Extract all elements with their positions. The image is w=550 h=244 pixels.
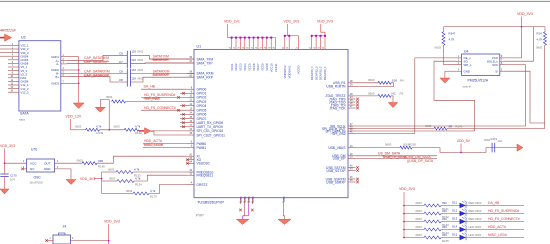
- svg-text:DA_HB: DA_HB: [488, 201, 500, 205]
- svg-text:DCAP33_4: DCAP33_4: [310, 66, 314, 80]
- svg-text:80: 80: [273, 47, 275, 49]
- svg-text:4.7k: 4.7k: [134, 168, 140, 172]
- svg-text:330: 330: [442, 209, 447, 213]
- svg-text:SCK: SCK: [492, 63, 498, 67]
- svg-text:VCC8: VCC8: [261, 63, 265, 71]
- svg-text:HDD_ACT#: HDD_ACT#: [488, 225, 506, 229]
- svg-text:4.7K: 4.7K: [537, 38, 543, 42]
- svg-text:0603: 0603: [126, 189, 133, 193]
- svg-text:R14: R14: [537, 32, 543, 36]
- svg-text:B+: B+: [56, 75, 60, 79]
- svg-text:75: 75: [251, 47, 253, 49]
- svg-text:VCC6: VCC6: [252, 63, 256, 71]
- svg-text:4.7k: 4.7k: [150, 189, 156, 193]
- svg-text:VCC4: VCC4: [243, 63, 247, 71]
- svg-text:VDD_5V: VDD_5V: [457, 139, 471, 143]
- svg-text:OSC: OSC: [34, 176, 42, 180]
- svg-text:LED 0603: LED 0603: [469, 225, 482, 229]
- svg-text:CAP_SATATX/P: CAP_SATATX/P: [84, 60, 109, 64]
- svg-text:0603: 0603: [416, 225, 423, 229]
- svg-text:JTAG_TCK: JTAG_TCK: [329, 106, 346, 110]
- svg-text:MISC_LED#: MISC_LED#: [144, 143, 163, 147]
- svg-text:4.7k: 4.7k: [135, 124, 141, 128]
- svg-text:R165: R165: [442, 239, 449, 243]
- svg-text:HD_FS_CONNECT#: HD_FS_CONNECT#: [488, 217, 520, 221]
- svg-text:0603: 0603: [416, 233, 423, 237]
- svg-text:0603: 0603: [108, 167, 115, 171]
- svg-text:U2: U2: [21, 36, 26, 40]
- svg-text:0603: 0603: [416, 209, 423, 213]
- svg-text:GND: GND: [44, 167, 52, 171]
- svg-text:((USB_DP_SATA: ((USB_DP_SATA: [407, 159, 434, 163]
- svg-text:SATA_TXP: SATA_TXP: [197, 61, 213, 65]
- svg-text:NC: NC: [392, 91, 396, 95]
- svg-text:sata: sata: [19, 118, 25, 122]
- svg-text:GND3: GND3: [51, 82, 59, 86]
- svg-text:103: 103: [132, 76, 137, 80]
- svg-text:SPI_CS2T_GPIO11: SPI_CS2T_GPIO11: [197, 133, 226, 137]
- svg-text:0603: 0603: [385, 142, 392, 146]
- svg-text:0402: 0402: [138, 50, 144, 54]
- svg-text:J4: J4: [63, 225, 67, 229]
- svg-text:U4: U4: [464, 50, 468, 54]
- svg-text:0603: 0603: [435, 46, 442, 50]
- svg-text:SPI_CS0: SPI_CS0: [332, 132, 345, 136]
- svg-text:VDD_12V: VDD_12V: [65, 115, 81, 119]
- svg-text:D14: D14: [452, 224, 458, 228]
- svg-text:R149: R149: [97, 131, 104, 135]
- svg-text:0603: 0603: [416, 201, 423, 205]
- svg-text:PM25LV512A: PM25LV512A: [468, 79, 489, 83]
- svg-text:4.7K: 4.7K: [449, 38, 455, 42]
- svg-text:52: 52: [313, 47, 315, 49]
- svg-text:SATA: SATA: [20, 112, 29, 116]
- svg-text:104: 104: [498, 139, 503, 143]
- svg-text:D15: D15: [452, 232, 458, 236]
- svg-text:VCC9: VCC9: [265, 63, 269, 71]
- svg-text:R146: R146: [456, 125, 463, 129]
- svg-text:R147: R147: [449, 32, 456, 36]
- svg-text:VCC3: VCC3: [239, 63, 243, 71]
- svg-text:R148: R148: [98, 165, 105, 169]
- svg-text:VDD_3V3: VDD_3V3: [517, 12, 533, 16]
- svg-text:HD_FS_SUSPEND#: HD_FS_SUSPEND#: [488, 209, 519, 213]
- svg-text:21: 21: [282, 47, 284, 49]
- svg-text:72: 72: [237, 47, 239, 49]
- svg-text:VCC11: VCC11: [274, 63, 278, 72]
- svg-text:PVP: PVP: [196, 213, 204, 218]
- svg-text:0603: 0603: [114, 125, 121, 129]
- svg-text:0603: 0603: [106, 95, 113, 99]
- svg-text:330: 330: [442, 225, 447, 229]
- svg-text:DA_HB: DA_HB: [144, 85, 156, 89]
- svg-text:0603: 0603: [536, 46, 543, 50]
- svg-text:R5: R5: [400, 91, 404, 95]
- svg-text:U70: U70: [31, 148, 37, 152]
- svg-text:TRF_PWR: TRF_PWR: [144, 97, 161, 101]
- svg-text:53: 53: [318, 47, 320, 49]
- svg-text:0603: 0603: [425, 124, 432, 128]
- svg-text:DCAP33_1: DCAP33_1: [323, 66, 327, 80]
- svg-text:VCC5: VCC5: [247, 63, 251, 71]
- svg-text:10K: 10K: [392, 78, 397, 82]
- svg-text:soic-8: soic-8: [463, 85, 471, 89]
- svg-text:78: 78: [264, 47, 266, 49]
- svg-text:4.7k: 4.7k: [135, 177, 141, 181]
- svg-text:RED 0603: RED 0603: [469, 201, 482, 205]
- svg-text:U1: U1: [197, 45, 202, 49]
- svg-text:USB_DP: USB_DP: [333, 157, 346, 161]
- svg-text:A-: A-: [56, 62, 59, 66]
- svg-text:CAP_SATARX/P: CAP_SATARX/P: [84, 73, 110, 77]
- svg-text:SI: SI: [495, 69, 498, 73]
- svg-text:90.9R150: 90.9R150: [404, 142, 417, 146]
- svg-text:DCAP33_2: DCAP33_2: [319, 66, 323, 80]
- svg-text:0603: 0603: [109, 176, 116, 180]
- svg-text:0603: 0603: [416, 217, 423, 221]
- svg-text:51: 51: [309, 47, 311, 49]
- svg-text:D11: D11: [452, 200, 457, 204]
- svg-text:VCCIO: VCCIO: [297, 66, 301, 75]
- svg-text:103: 103: [132, 58, 137, 62]
- svg-text:DCAP33_3: DCAP33_3: [314, 66, 318, 80]
- svg-text:C7: C7: [119, 60, 123, 64]
- svg-text:VDD_3V3: VDD_3V3: [0, 144, 15, 148]
- svg-text:4.7k: 4.7k: [96, 125, 102, 129]
- svg-text:0R: 0R: [449, 125, 453, 129]
- svg-text:C171: C171: [491, 137, 498, 141]
- svg-text:R170: R170: [150, 195, 157, 199]
- svg-text:104: 104: [10, 178, 15, 182]
- svg-text:V12_3: V12_3: [21, 90, 30, 94]
- svg-text:0603: 0603: [77, 159, 84, 163]
- svg-text:HD_FS_CONNECT#: HD_FS_CONNECT#: [144, 106, 176, 110]
- svg-text:21: 21: [286, 47, 288, 49]
- svg-text:C8: C8: [119, 78, 123, 82]
- svg-text:GRSTZ: GRSTZ: [197, 183, 208, 187]
- svg-text:VDD_3V3: VDD_3V3: [284, 20, 300, 24]
- svg-text:PWM1: PWM1: [197, 146, 207, 150]
- svg-text:R154: R154: [135, 182, 142, 186]
- svg-text:D12: D12: [452, 208, 458, 212]
- svg-text:VDD_3V3: VDD_3V3: [104, 220, 120, 224]
- svg-text:C8: C8: [119, 52, 123, 56]
- svg-text:RED 0603: RED 0603: [469, 217, 482, 221]
- svg-text:VCC: VCC: [30, 162, 37, 166]
- svg-text:USB_SSRXP: USB_SSRXP: [326, 180, 345, 184]
- svg-text:Smd7050: Smd7050: [30, 181, 43, 185]
- svg-text:76: 76: [255, 47, 257, 49]
- svg-text:VDD_3V3: VDD_3V3: [80, 177, 95, 181]
- svg-text:GPIO4: GPIO4: [197, 104, 207, 108]
- svg-text:C8: C8: [119, 70, 123, 74]
- svg-text:OUT: OUT: [44, 162, 51, 166]
- svg-text:USB_R1RTN: USB_R1RTN: [326, 85, 346, 89]
- svg-text:VSSOSC: VSSOSC: [197, 162, 211, 166]
- svg-text:GND: GND: [464, 69, 470, 73]
- svg-text:103: 103: [132, 50, 137, 54]
- svg-text:0402: 0402: [138, 58, 144, 62]
- svg-text:330: 330: [442, 233, 447, 237]
- svg-text:VCC10: VCC10: [269, 63, 273, 72]
- svg-text:0603: 0603: [368, 78, 375, 82]
- svg-text:VDDSHV2: VDDSHV2: [283, 65, 287, 78]
- svg-text:VDDSHV1: VDDSHV1: [287, 65, 291, 78]
- svg-text:0402: 0402: [138, 68, 144, 72]
- svg-text:D13: D13: [452, 216, 458, 220]
- svg-text:R4: R4: [400, 78, 404, 82]
- svg-text:103: 103: [132, 68, 137, 72]
- svg-text:77: 77: [259, 47, 261, 49]
- svg-text:0603: 0603: [368, 91, 375, 95]
- svg-text:330: 330: [442, 201, 447, 205]
- svg-text:79: 79: [268, 47, 270, 49]
- svg-text:MISC_LED#: MISC_LED#: [488, 233, 507, 237]
- svg-text:0603: 0603: [75, 125, 82, 129]
- svg-text:LED 0603: LED 0603: [469, 233, 482, 237]
- svg-text:33R: 33R: [98, 159, 103, 163]
- svg-text:SATARX/P: SATARX/P: [153, 73, 170, 77]
- svg-text:VCC7: VCC7: [256, 63, 260, 71]
- svg-text:70: 70: [229, 47, 231, 49]
- svg-text:VCC2: VCC2: [234, 63, 238, 71]
- svg-text:73: 73: [242, 47, 244, 49]
- svg-text:RED 0603: RED 0603: [469, 209, 482, 213]
- svg-text:R152: R152: [135, 131, 142, 135]
- svg-text:FREQSEL1: FREQSEL1: [197, 174, 214, 178]
- svg-text:VDD_1V1: VDD_1V1: [224, 20, 240, 24]
- svg-text:VCC1: VCC1: [230, 63, 234, 71]
- svg-text:21: 21: [296, 47, 298, 49]
- svg-text:330: 330: [442, 217, 447, 221]
- svg-text:USB_VBUS: USB_VBUS: [328, 146, 345, 150]
- svg-text:VDD_3V3: VDD_3V3: [399, 187, 415, 191]
- svg-text:USB_SSTXP: USB_SSTXP: [327, 169, 346, 173]
- svg-text:WP_n: WP_n: [464, 63, 472, 67]
- svg-text:71: 71: [233, 47, 235, 49]
- svg-text:TUSB9261PVP: TUSB9261PVP: [197, 200, 224, 205]
- svg-text:4R0522uF: 4R0522uF: [0, 29, 17, 33]
- svg-text:SATA_RXP: SATA_RXP: [197, 76, 213, 80]
- svg-text:VDD_3V3: VDD_3V3: [317, 20, 333, 24]
